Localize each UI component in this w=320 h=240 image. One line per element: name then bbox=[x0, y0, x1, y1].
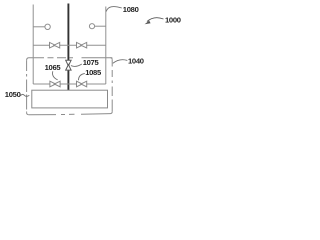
left edge dashes bbox=[26, 60, 28, 113]
svg-text:1085: 1085 bbox=[85, 68, 102, 77]
wire: lower manifold row bbox=[33, 83, 106, 85]
leader for 1085 bbox=[79, 74, 85, 81]
right edge dashes bbox=[111, 60, 113, 112]
valve top-left bbox=[50, 42, 60, 48]
wire: left supply pipe bbox=[32, 5, 34, 85]
top edge dashes bbox=[29, 57, 112, 59]
top-right corner bbox=[111, 58, 113, 60]
leader for 1040 bbox=[113, 60, 128, 64]
bottom-right corner bbox=[111, 112, 113, 114]
leader for 1050 (tilde) bbox=[20, 94, 29, 96]
valve top-right bbox=[77, 42, 87, 48]
dashed enclosure 1040 (phantom box) bbox=[27, 58, 113, 115]
wire: right supply pipe bbox=[105, 7, 107, 85]
leader for 1065 bbox=[53, 71, 58, 80]
port circle right bbox=[89, 24, 94, 29]
leader arrow for 1000 bbox=[147, 18, 164, 22]
port stub left bbox=[33, 26, 45, 28]
svg-text:1000: 1000 bbox=[165, 16, 181, 25]
wire: upper manifold row bbox=[33, 44, 106, 46]
leader for 1075 bbox=[71, 64, 82, 66]
wire: center pipe (dark) bbox=[67, 4, 69, 91]
svg-text:1080: 1080 bbox=[123, 5, 139, 14]
leader for 1080 bbox=[106, 7, 122, 12]
svg-text:1040: 1040 bbox=[128, 57, 144, 66]
box 1050 bbox=[32, 90, 108, 108]
port stub right bbox=[95, 25, 106, 27]
valve bottom-left (1065) bbox=[50, 81, 60, 87]
svg-text:1075: 1075 bbox=[83, 58, 100, 67]
port circle left bbox=[45, 24, 50, 29]
top-left corner bbox=[27, 58, 29, 60]
valve bottom-right (1085) bbox=[77, 81, 87, 87]
valve vertical (1075) on center pipe bbox=[66, 60, 71, 70]
svg-text:1050: 1050 bbox=[5, 90, 21, 99]
bottom-left corner bbox=[27, 113, 29, 115]
bottom edge dashes bbox=[29, 114, 111, 115]
svg-text:1065: 1065 bbox=[45, 63, 62, 72]
